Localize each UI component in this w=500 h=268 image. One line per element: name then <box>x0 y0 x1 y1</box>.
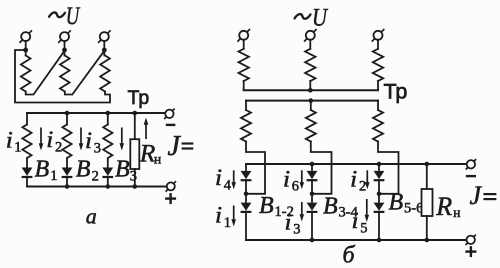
svg-text:2: 2 <box>359 179 366 195</box>
diode B2 (circuit a) <box>62 158 73 187</box>
junction bus-winding 2 (circuit a) <box>65 111 70 116</box>
midpoint node leg 1 (circuit b) <box>244 192 249 197</box>
svg-text:U: U <box>312 5 329 32</box>
label Rn (circuit a) <box>139 138 161 167</box>
svg-text:i: i <box>85 128 92 153</box>
wire cathode bus (circuit a) <box>27 186 167 188</box>
wire secondary star bus (circuit b) <box>246 100 378 102</box>
label i5 (circuit b) <box>352 208 368 236</box>
secondary winding 3 (circuit a) <box>103 113 112 158</box>
wire terminal-to-node 1 (circuit a) <box>25 41 27 50</box>
svg-text:б: б <box>343 243 356 268</box>
junction bus-leg3 (circuit b) <box>377 162 382 167</box>
svg-text:В: В <box>115 157 130 183</box>
svg-text:3: 3 <box>94 140 101 156</box>
svg-text:4: 4 <box>224 177 232 193</box>
diode B3 upper (circuit b) <box>307 164 318 194</box>
label minus (circuit b) <box>466 175 476 177</box>
diode B4 lower (circuit b) <box>307 194 318 240</box>
wire Rn top (circuit a) <box>134 113 136 139</box>
input terminal phase 3 (circuit a) <box>98 30 111 43</box>
junction bus-leg2 (circuit b) <box>310 162 315 167</box>
svg-text:U: U <box>66 3 81 30</box>
svg-text:i: i <box>215 203 222 228</box>
primary winding 1 (circuit b) <box>239 40 249 90</box>
svg-text:В: В <box>389 190 404 216</box>
label i3 (circuit b) <box>285 209 301 237</box>
label minus (circuit a) <box>166 124 176 126</box>
svg-text:В: В <box>35 156 50 182</box>
label ~U (circuit a) <box>49 3 81 30</box>
current arrow i6 (circuit b) <box>300 170 305 189</box>
label plus (circuit b) <box>465 246 476 257</box>
junction bus-Rn (circuit b) <box>425 162 430 167</box>
input terminal phase 1 (circuit b) <box>237 29 250 42</box>
secondary winding 1 (circuit a) <box>22 113 31 158</box>
wire delta left+bottom rail (circuit a) <box>15 50 110 103</box>
current arrow i2 (circuit a) <box>79 128 84 151</box>
transformer Tp label (circuit b) <box>384 80 408 104</box>
wire Rn bottom (circuit b) <box>426 216 428 240</box>
svg-text:Тр: Тр <box>384 80 408 104</box>
current arrow i3 (circuit b) <box>300 202 305 222</box>
svg-text:Тр: Тр <box>128 87 150 109</box>
node 3 (circuit a primary) <box>102 48 107 53</box>
svg-text:3: 3 <box>293 222 300 238</box>
label i4 (circuit b) <box>215 165 232 193</box>
diode B6 lower (circuit b) <box>374 194 385 240</box>
label J= (circuit b) <box>470 181 497 210</box>
label J= (circuit a) <box>168 131 194 162</box>
svg-text:R: R <box>435 192 452 221</box>
svg-text:6: 6 <box>292 179 299 195</box>
label B5-6 (circuit b) <box>389 190 424 217</box>
current arrow i1 (circuit a) <box>39 128 44 151</box>
svg-text:н: н <box>154 152 161 167</box>
caption a <box>86 204 97 229</box>
primary winding 3 (circuit b) <box>373 40 383 90</box>
svg-text:i: i <box>6 127 13 152</box>
load current arrow (circuit a) <box>144 118 149 140</box>
label i1 (circuit a) <box>6 127 22 155</box>
current arrow i3 (circuit a) <box>120 128 125 151</box>
wire terminal-to-node 2 (circuit a) <box>64 41 66 50</box>
label B1 (circuit a) <box>35 156 58 184</box>
wire winding I to node 2 diagonal (circuit a) <box>26 51 65 95</box>
node 2 (circuit a primary) <box>62 48 67 53</box>
svg-text:В: В <box>76 157 91 183</box>
wire Rn top (circuit b) <box>426 164 428 189</box>
secondary winding 2 (circuit a) <box>62 113 71 158</box>
svg-text:1: 1 <box>224 215 231 231</box>
label plus (circuit a) <box>165 193 176 204</box>
wire phase 2 to bridge midpoint (circuit b) <box>311 142 332 194</box>
wire anode bus (circuit b) <box>246 163 466 165</box>
svg-text:J: J <box>470 181 483 210</box>
diode B5 upper (circuit b) <box>374 164 385 194</box>
input terminal phase 2 (circuit a) <box>58 30 71 43</box>
midpoint node leg 2 (circuit b) <box>310 192 315 197</box>
wire secondary neutral bus (circuit a) <box>27 112 165 114</box>
junction bus-Rn bottom (circuit b) <box>425 238 430 243</box>
current arrow i2 (circuit b) <box>365 170 370 189</box>
svg-text:В: В <box>259 193 274 219</box>
secondary winding 3 (circuit b) <box>373 101 383 142</box>
input terminal phase 2 (circuit b) <box>304 29 317 42</box>
junction bus-Rn bottom (circuit a) <box>133 184 138 189</box>
svg-text:i: i <box>215 165 222 190</box>
wire cathode bus (circuit b) <box>246 239 466 241</box>
svg-text:i: i <box>283 166 290 191</box>
svg-text:н: н <box>453 205 460 220</box>
svg-text:i: i <box>46 127 53 152</box>
label B2 (circuit a) <box>76 157 99 185</box>
current arrow i4 (circuit b) <box>231 170 236 189</box>
output terminal plus (circuit a) <box>166 181 176 191</box>
svg-text:3: 3 <box>130 169 137 185</box>
svg-text:2: 2 <box>55 139 62 155</box>
wire winding II to node 3 diagonal (circuit a) <box>65 51 105 95</box>
primary winding I (circuit a) <box>21 50 31 92</box>
node 1 (circuit a primary) <box>23 48 28 53</box>
wire terminal-to-node 3 (circuit a) <box>103 41 105 50</box>
input terminal phase 1 (circuit a) <box>19 30 32 43</box>
junction bus-winding 3 (circuit a) <box>106 111 111 116</box>
junction bus-Rn (circuit a) <box>133 111 138 116</box>
junction bus-diode2 (circuit a) <box>65 184 70 189</box>
wire phase 1 to bridge midpoint (circuit b) <box>246 142 265 194</box>
svg-text:3-4: 3-4 <box>339 204 359 220</box>
svg-text:2: 2 <box>92 169 99 185</box>
label ~U (circuit b) <box>295 5 329 32</box>
label i2 (circuit a) <box>46 127 62 156</box>
junction primary star (circuit b) <box>308 88 313 93</box>
label B3-4 (circuit b) <box>323 194 359 221</box>
caption b <box>343 243 356 268</box>
svg-text:5-6: 5-6 <box>404 200 423 216</box>
diode B1 (circuit a) <box>22 158 33 187</box>
secondary winding 2 (circuit b) <box>306 101 316 142</box>
wire Rn bottom (circuit a) <box>134 169 136 187</box>
label Rn (circuit b) <box>435 192 460 221</box>
junction secondary star (circuit b) <box>309 98 314 103</box>
svg-text:5: 5 <box>360 220 367 236</box>
label i1 (circuit b) <box>215 203 231 231</box>
output terminal minus (circuit a) <box>164 109 174 119</box>
svg-text:i: i <box>350 166 357 191</box>
svg-text:J: J <box>168 131 182 162</box>
secondary winding 1 (circuit b) <box>241 101 251 142</box>
label i2 (circuit b) <box>350 166 366 194</box>
svg-text:а: а <box>86 204 97 229</box>
label B1-2 (circuit b) <box>259 193 294 220</box>
wire primary star bus (circuit b) <box>244 89 378 91</box>
junction bus-leg2 bottom (circuit b) <box>310 238 315 243</box>
junction bus-leg3 bottom (circuit b) <box>377 238 382 243</box>
resistor Rn (circuit b) <box>422 189 433 216</box>
junction bus-diode3 (circuit a) <box>106 184 111 189</box>
output terminal minus (circuit b) <box>466 159 476 169</box>
primary winding II (circuit a) <box>60 50 70 92</box>
diode B1 upper (circuit b) <box>241 164 252 194</box>
current arrow i1 (circuit b) <box>231 206 236 227</box>
transformer Tp label (circuit a) <box>128 87 150 109</box>
svg-text:1: 1 <box>50 168 57 184</box>
input terminal phase 3 (circuit b) <box>372 29 385 42</box>
svg-text:В: В <box>323 194 338 220</box>
current arrow i5 (circuit b) <box>365 199 370 222</box>
wire phase 3 to bridge midpoint (circuit b) <box>378 142 399 194</box>
label i3 (circuit a) <box>85 128 101 157</box>
svg-text:1: 1 <box>14 140 21 156</box>
primary winding III (circuit a) <box>100 50 110 92</box>
output terminal plus (circuit b) <box>466 235 476 245</box>
svg-text:1-2: 1-2 <box>275 204 294 220</box>
label B3 (circuit a) <box>115 157 137 185</box>
resistor Rn (circuit a) <box>130 139 139 169</box>
diode B3 (circuit a) <box>102 158 113 187</box>
midpoint node leg 3 (circuit b) <box>377 192 382 197</box>
diode B2 lower (circuit b) <box>241 194 252 240</box>
label i6 (circuit b) <box>283 166 299 194</box>
primary winding 2 (circuit b) <box>305 40 315 90</box>
